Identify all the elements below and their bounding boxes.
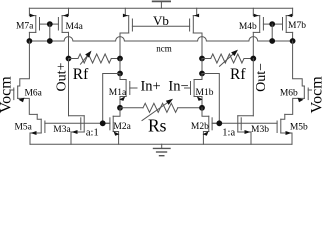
label M1b [196,88,214,98]
transistor M6b [285,41,312,114]
label Rf1 [73,66,89,83]
label Vocm right [308,76,322,114]
transistor M6a [11,41,38,114]
node Out- junction [250,56,256,62]
wire mirror-left gates [45,122,110,124]
ground symbol [154,144,171,156]
label M7b [288,21,306,31]
label Out+ [55,62,70,91]
label In+ [140,78,160,94]
node Rs-left [117,105,123,111]
svg-text:Rf: Rf [230,66,246,83]
label M6a [24,89,42,99]
svg-text:Rf: Rf [73,66,89,83]
transistor M5a [30,114,45,144]
label Rf2 [230,66,246,83]
node M1b drain [199,71,205,77]
label M3b [251,125,269,135]
svg-text:M3b: M3b [251,125,269,135]
node ncm-right-gates [269,38,275,44]
svg-text:Vb: Vb [153,13,169,28]
svg-text:M4b: M4b [239,22,257,32]
svg-text:M4a: M4a [65,22,83,32]
cascode transistor left [120,8,132,58]
node Out+ junction [66,56,72,62]
resistor Rf1 arrow [81,51,92,65]
svg-text:M2b: M2b [191,122,209,132]
wire mirror-right gates [212,122,277,124]
label a:1 [86,128,99,139]
transistor M4a [50,8,69,32]
transistor M1b [185,74,203,108]
node M1a drain [117,71,123,77]
wire M1a-drain to gates [103,74,120,124]
wire M4b drain to Out- [252,32,254,58]
label 1:a [222,128,235,139]
label Out- [254,63,269,92]
svg-text:In+: In+ [140,78,160,94]
transistor M3b [238,116,254,144]
node Rf1-cascode junction [117,56,123,62]
resistor Rf2 arrow [220,50,239,67]
svg-text:Vocm: Vocm [308,76,322,114]
svg-text:Rs: Rs [148,116,167,136]
label ncm [156,43,172,53]
svg-text:ncm: ncm [156,43,172,53]
svg-text:M3a: M3a [53,125,71,135]
power VDD symbol [153,1,170,8]
label M5b [290,122,308,132]
svg-text:1:a: 1:a [222,128,235,139]
svg-text:In−: In− [168,78,188,94]
node ncm-right-end [290,38,296,44]
label In- [168,78,188,94]
label M7a [16,22,34,32]
transistor M3a [69,116,85,144]
svg-text:a:1: a:1 [86,128,99,139]
wire ncm [29,37,292,41]
label Vb [153,13,169,28]
resistor Rs zigzag [120,103,202,112]
svg-text:Out−: Out− [254,63,269,92]
svg-text:M5b: M5b [290,122,308,132]
label M1a [109,88,127,98]
label M5a [14,122,32,132]
svg-text:M1b: M1b [196,88,214,98]
transistor M7a [29,8,49,41]
wire M1b-drain to gates [202,74,219,124]
resistor Rs arrow [142,99,173,121]
cascode transistor right [190,8,202,58]
wire ground rail [30,143,292,145]
wire VDD rail [29,7,292,9]
transistor M2b [202,108,219,144]
node mirror-right gate junction [216,120,222,126]
transistor M7b [272,8,292,41]
label M6b [280,89,298,99]
svg-text:M6a: M6a [24,89,42,99]
resistor Rf1 zigzag [69,54,121,63]
svg-text:M7a: M7a [16,22,34,32]
svg-text:M7b: M7b [288,21,306,31]
wire cascode-left drain chain [119,59,121,74]
node ncm-left-end [27,38,33,44]
wire Vb gate [132,25,189,27]
label M2a [113,122,131,132]
label M4b [239,22,257,32]
transistor M1a [119,74,137,108]
svg-text:M2a: M2a [113,122,131,132]
label Vocm left [0,76,14,114]
node ncm-left-gates [47,38,53,44]
svg-text:M1a: M1a [109,88,127,98]
node mirror-left gate [47,21,53,41]
wire M4a drain to Out+ [68,32,70,58]
label Rs [148,116,167,136]
resistor Rf2 zigzag [202,54,253,63]
node Rs-right [199,105,205,111]
node Rf2-cascode junction [199,56,205,62]
node mirror-right gate [269,21,275,41]
svg-text:M5a: M5a [14,122,32,132]
wire Out- column [252,59,254,116]
wire cascode-right drain chain [201,59,203,74]
transistor M5b [277,114,292,144]
transistor M4b [253,8,272,32]
node mirror-left gate junction [100,120,106,126]
wire Out+ column [68,59,70,116]
svg-text:Out+: Out+ [55,62,70,91]
label M4a [65,22,83,32]
svg-text:M6b: M6b [280,89,298,99]
label M2b [191,122,209,132]
transistor M2a [103,108,120,144]
label M3a [53,125,71,135]
svg-text:Vocm: Vocm [0,76,14,114]
